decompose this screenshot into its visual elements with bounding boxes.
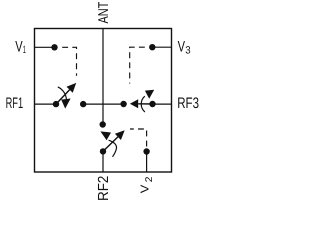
switch SW2 arm arrowhead: [115, 130, 125, 140]
switch SW2 throw contact dot: [100, 121, 106, 127]
switch SW3 motion arc: [141, 96, 145, 112]
svg-text:3: 3: [185, 45, 191, 57]
switch SW2 motion arc: [109, 140, 117, 157]
switch SW1 motion arc: [58, 87, 67, 100]
switch SW3 arm arrowhead: [130, 99, 138, 108]
control dashed line V2: [130, 129, 147, 147]
node V2 dot: [143, 148, 149, 154]
svg-text:ANT: ANT: [96, 1, 112, 23]
switch SW2 pole dot: [100, 148, 106, 154]
node V1 dot: [51, 44, 57, 50]
control dashed line V3: [130, 47, 145, 83]
wire ANT vertical: [102, 29, 104, 125]
wire RF1: [35, 103, 57, 105]
svg-text:RF1: RF1: [6, 95, 24, 112]
svg-text:RF3: RF3: [177, 95, 199, 112]
wire RF2 stub: [102, 151, 104, 172]
svg-text:V: V: [140, 184, 152, 193]
svg-text:2: 2: [144, 177, 155, 183]
svg-text:RF2: RF2: [96, 176, 112, 200]
wire V1: [35, 46, 55, 48]
switch SW2 motion arrowhead: [100, 131, 111, 140]
switch SW1 pole dot: [53, 101, 59, 107]
switch SW3 arm: [138, 103, 152, 105]
control dashed line V1: [62, 47, 76, 76]
wire common cross: [83, 103, 123, 105]
device outline box: [35, 29, 172, 173]
switch SW1 throw contact dot: [80, 101, 86, 107]
switch SW3 motion arrowhead: [145, 90, 154, 99]
wire RF3: [153, 103, 172, 105]
switch SW1 arm arrowhead: [67, 83, 77, 93]
wire V3: [152, 46, 171, 48]
switch SW1 arm: [56, 90, 70, 104]
svg-text:1: 1: [23, 44, 26, 56]
wire V2 stub: [146, 152, 148, 173]
switch SW3 pole dot: [149, 101, 155, 107]
node V3 dot: [149, 44, 155, 50]
switch SW2 arm: [103, 137, 118, 152]
switch SW1 motion arrowhead: [61, 99, 70, 109]
switch SW3 throw contact dot: [120, 101, 126, 107]
